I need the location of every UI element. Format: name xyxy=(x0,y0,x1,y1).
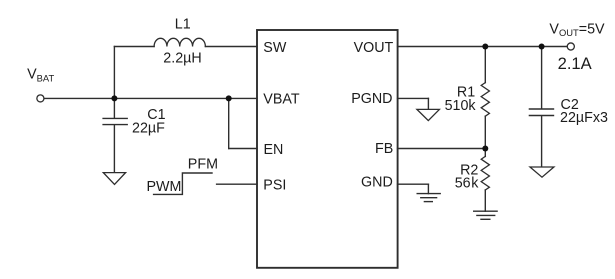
capacitor C2 bottom wire xyxy=(541,116,543,167)
ground bars under R2 xyxy=(474,210,497,212)
ground bars GND pin xyxy=(417,193,440,195)
svg-text:PWM: PWM xyxy=(147,179,182,195)
svg-text:PFM: PFM xyxy=(188,156,218,172)
wire PGND horizontal xyxy=(398,97,429,99)
wire to inductor xyxy=(114,46,154,48)
wire GND vertical stub xyxy=(427,184,429,193)
wire EN branch vertical xyxy=(228,98,230,148)
capacitor C2 plates xyxy=(529,108,553,110)
ground triangle under C2 xyxy=(530,167,554,177)
wire PGND vertical stub xyxy=(427,98,429,109)
svg-text:SW: SW xyxy=(263,40,287,56)
junction node VOUT/C2 xyxy=(539,44,545,50)
resistor R1 top wire xyxy=(484,47,486,83)
capacitor C1 plates xyxy=(103,117,127,119)
svg-text:2.1A: 2.1A xyxy=(558,54,593,73)
svg-text:PSI: PSI xyxy=(263,178,286,194)
svg-text:PGND: PGND xyxy=(351,91,392,107)
resistor R1 bottom wire xyxy=(484,116,486,148)
junction node on VBAT line at L1 branch xyxy=(111,95,117,101)
wire GND horizontal xyxy=(398,183,429,185)
svg-text:22µF: 22µF xyxy=(132,121,165,137)
resistor R2 zigzag xyxy=(481,156,489,190)
signal PWM/PFM step waveform xyxy=(154,173,212,194)
junction node VOUT/R1 xyxy=(482,44,488,50)
resistor R2 bottom wire xyxy=(484,190,486,211)
wire EN branch horizontal xyxy=(229,148,257,150)
wire VBAT horizontal xyxy=(45,97,258,99)
svg-text:22µFx3: 22µFx3 xyxy=(560,110,608,126)
wire L1 branch vertical xyxy=(113,47,115,99)
junction node FB/R1/R2 xyxy=(482,146,488,152)
junction node on VBAT line at EN branch xyxy=(226,95,232,101)
ground triangle PGND xyxy=(417,109,440,120)
wire PSI xyxy=(217,183,257,185)
IC U1 box xyxy=(257,30,398,268)
svg-text:EN: EN xyxy=(264,142,284,158)
capacitor C1 bottom stub xyxy=(113,125,115,172)
svg-text:510k: 510k xyxy=(445,98,477,114)
inductor L1 xyxy=(154,38,205,46)
node VOUT output terminal xyxy=(567,43,574,50)
svg-text:VOUT: VOUT xyxy=(354,40,394,56)
node VBAT input terminal xyxy=(37,95,44,102)
svg-text:GND: GND xyxy=(361,174,393,190)
svg-text:L1: L1 xyxy=(175,16,191,32)
capacitor C1 top stub xyxy=(113,98,115,117)
svg-text:2.2µH: 2.2µH xyxy=(163,51,201,67)
ground triangle under C1 xyxy=(103,173,125,185)
wire inductor to SW xyxy=(205,46,257,48)
svg-text:VBAT: VBAT xyxy=(263,91,300,107)
svg-text:FB: FB xyxy=(375,141,393,157)
capacitor C2 top wire xyxy=(541,47,543,109)
resistor R1 zigzag xyxy=(481,83,489,117)
wire FB horizontal xyxy=(398,148,486,150)
resistor R2 top wire xyxy=(484,149,486,157)
wire VOUT horizontal xyxy=(398,46,567,48)
svg-text:56k: 56k xyxy=(455,176,480,192)
